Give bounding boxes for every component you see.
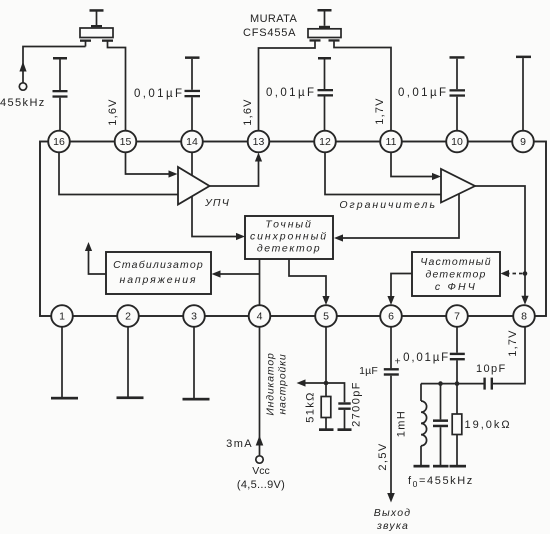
ground (resonator Z1 top) [90, 9, 104, 12]
svg-text:13: 13 [253, 136, 265, 148]
svg-text:1: 1 [59, 311, 65, 323]
svg-text:9: 9 [520, 136, 526, 148]
arrow 3mA up [256, 436, 264, 446]
wire filter Z2 to pin 11 [334, 42, 391, 132]
svg-text:0,01µF: 0,01µF [398, 87, 448, 99]
wire pin5 down [325, 327, 327, 397]
svg-text:+: + [395, 356, 401, 368]
svg-text:11: 11 [386, 136, 397, 148]
resonator Z1 top electrode bar [91, 25, 102, 27]
wire sync detector to pin5 [289, 259, 326, 297]
svg-text:напряжения: напряжения [120, 274, 198, 286]
svg-text:3: 3 [191, 311, 197, 323]
pin 15 [115, 131, 137, 153]
wire [191, 97, 193, 131]
svg-text:10pF: 10pF [476, 363, 507, 375]
svg-text:Частотный: Частотный [420, 256, 492, 268]
capacitor C6 1uF polarized [384, 368, 399, 370]
input arrow up [19, 62, 26, 72]
filter Z2 bottom-left electrode bar [310, 39, 321, 41]
node [455, 381, 460, 386]
filter Z2 MURATA CFS455A body [308, 29, 341, 38]
svg-text:1,6V: 1,6V [242, 98, 254, 125]
svg-text:детектор: детектор [257, 243, 321, 255]
wire [456, 97, 458, 131]
svg-text:звука: звука [376, 520, 409, 532]
svg-text:Стабилизатор: Стабилизатор [113, 259, 204, 271]
ground (C9) [433, 465, 449, 468]
wire pin9 to ground [522, 58, 524, 131]
pin 7 [446, 305, 468, 327]
capacitor C1 pin16 [53, 90, 68, 92]
wire pin1 to ground [61, 327, 63, 398]
svg-text:7: 7 [454, 311, 460, 323]
svg-text:детектор: детектор [425, 269, 486, 281]
filter Z2 top lead [324, 12, 326, 26]
ground (R2) [450, 465, 467, 468]
wire IF amp output to pin13 [210, 161, 259, 186]
dashed wire junction to freq detector [508, 273, 523, 275]
terminal 455kHz [19, 83, 26, 90]
capacitor C9 tank [440, 384, 442, 420]
svg-text:12: 12 [319, 136, 331, 148]
op-amp U1 IF amplifier [178, 167, 210, 205]
pin 9 [512, 131, 534, 153]
wire pin16 to IF amp input [59, 152, 178, 195]
wire pin13 to filter Z2 [259, 42, 316, 132]
svg-text:MURATA: MURATA [250, 13, 297, 25]
svg-text:3mA: 3mA [226, 438, 253, 450]
svg-text:15: 15 [120, 136, 132, 148]
wire pin3 to ground [193, 327, 195, 399]
pin 14 [181, 131, 203, 153]
wire audio output [390, 376, 392, 494]
wire pin12 to limiter [325, 152, 441, 195]
ground (pin10 cap) [450, 56, 465, 59]
pin 4 [249, 305, 271, 327]
ground (pin3) [183, 398, 210, 401]
wire arrow to tuning indicator [305, 382, 326, 384]
wire pin5 node to C5 [326, 383, 345, 402]
ground (pin2) [117, 396, 144, 399]
capacitor C3 0,01uF pin12 [318, 89, 334, 91]
pin 10 [446, 131, 468, 153]
pin 12 [314, 131, 336, 153]
IC body outline [40, 142, 546, 317]
svg-text:2: 2 [125, 311, 131, 323]
svg-text:1mH: 1mH [396, 410, 408, 437]
wire [344, 410, 346, 429]
resistor R1 51k [321, 397, 331, 418]
capacitor C8 10pF [483, 378, 485, 390]
wire [324, 60, 326, 90]
wire [325, 418, 327, 429]
ground (pin16 cap) [53, 57, 67, 60]
wire 455kHz input to resonator Z1 [23, 47, 86, 83]
node limiter output junction [523, 271, 528, 276]
pin 1 [51, 305, 73, 327]
pin 8 [513, 305, 535, 327]
wire [59, 98, 61, 131]
resistor R2 19,0k [456, 384, 458, 414]
wire pin7 down [456, 327, 458, 353]
pin 13 [248, 131, 270, 153]
wire [456, 360, 458, 383]
resonator Z1 body [80, 28, 113, 38]
wire resonator right lead to pin 15 [108, 42, 126, 132]
inductor L1 1mH [420, 384, 422, 401]
block voltage stabilizer [106, 252, 211, 294]
wire [456, 59, 458, 89]
wire tank bus [421, 383, 484, 385]
svg-text:16: 16 [53, 136, 65, 148]
block sync detector [245, 216, 333, 259]
ground (R1) [319, 428, 334, 431]
wire 10pF to pin8 [493, 327, 525, 384]
capacitor C7 0,01uF [450, 353, 465, 355]
resonator Z1 top lead [96, 12, 98, 26]
node [438, 381, 443, 386]
pin 2 [117, 305, 139, 327]
resonator Z1 bottom-right electrode bar [102, 40, 113, 42]
svg-text:Ограничитель: Ограничитель [339, 199, 437, 211]
capacitor C2 0,01uF pin14 [185, 90, 201, 92]
svg-text:Vcc: Vcc [252, 465, 270, 477]
pin 11 [380, 131, 402, 153]
filter Z2 top electrode bar [319, 26, 330, 28]
ground (pin14 cap) [185, 56, 200, 59]
capacitor C4 0,01uF pin10 [450, 89, 466, 91]
svg-text:10: 10 [451, 136, 463, 148]
block frequency detector [412, 252, 500, 296]
pin 5 [315, 305, 337, 327]
svg-text:0,01µF: 0,01µF [403, 352, 450, 364]
svg-text:5: 5 [323, 311, 329, 323]
svg-text:0,01µF: 0,01µF [134, 88, 184, 100]
wire resonator left lead [85, 42, 87, 47]
svg-text:1,7V: 1,7V [374, 97, 386, 124]
svg-text:455kHz: 455kHz [0, 97, 46, 109]
wire limiter output to pin8 [475, 186, 525, 296]
svg-text:2700pF: 2700pF [351, 381, 363, 427]
wire [324, 97, 326, 132]
svg-text:4: 4 [257, 311, 263, 323]
ground (pin1) [51, 397, 78, 400]
svg-text:УПЧ: УПЧ [204, 197, 230, 209]
svg-text:6: 6 [388, 311, 394, 323]
svg-text:CFS455A: CFS455A [243, 27, 296, 39]
pin 16 [48, 131, 70, 153]
svg-text:8: 8 [521, 311, 527, 323]
ground (L1) [414, 465, 430, 468]
wire [59, 60, 61, 91]
resonator Z1 bottom-left electrode bar [80, 40, 91, 42]
svg-text:Индикатор: Индикатор [265, 352, 277, 415]
wire stabilizer output arrow [89, 251, 107, 274]
wire freq detector to pin6 [391, 274, 412, 298]
wire limiter to sync detector [343, 194, 460, 238]
ground (pin9) [516, 56, 531, 59]
terminal Vcc [256, 456, 263, 463]
svg-text:0,01µF: 0,01µF [266, 87, 316, 99]
svg-text:синхронный: синхронный [250, 231, 328, 243]
filter Z2 bottom-right electrode bar [329, 39, 340, 41]
wire pin4 to Vcc terminal [259, 327, 261, 456]
op-amp U2 limiter [441, 169, 475, 203]
svg-text:51kΩ: 51kΩ [305, 391, 317, 423]
svg-text:Выход: Выход [374, 507, 412, 519]
pin 3 [183, 305, 205, 327]
svg-text:1,6V: 1,6V [107, 98, 119, 125]
svg-text:2,5V: 2,5V [377, 442, 389, 470]
svg-text:настройки: настройки [277, 353, 289, 414]
node pin5 junction [324, 381, 329, 386]
svg-text:1µF: 1µF [359, 365, 378, 377]
capacitor C5 2700pF [338, 402, 350, 404]
svg-text:1,7V: 1,7V [507, 329, 519, 356]
wire sync detector to pin4 / stabilizer [259, 259, 261, 305]
wire pin15 to IF amp input [126, 152, 170, 174]
wire pin2 to ground [127, 327, 129, 397]
svg-text:с ФНЧ: с ФНЧ [435, 281, 477, 293]
wire pin14 to sync detector [192, 152, 237, 237]
ground (filter Z2 top) [318, 9, 332, 12]
svg-text:(4,5...9V): (4,5...9V) [237, 479, 285, 491]
ground (pin12 cap) [318, 57, 331, 60]
svg-text:19,0kΩ: 19,0kΩ [465, 419, 512, 431]
pin 6 [380, 305, 402, 327]
wire [191, 59, 193, 90]
ground (C5) [338, 428, 352, 431]
svg-text:14: 14 [186, 136, 198, 148]
wire pin11 to limiter [391, 152, 433, 177]
svg-text:Точный: Точный [265, 219, 313, 231]
wire pin6 down [390, 327, 392, 369]
